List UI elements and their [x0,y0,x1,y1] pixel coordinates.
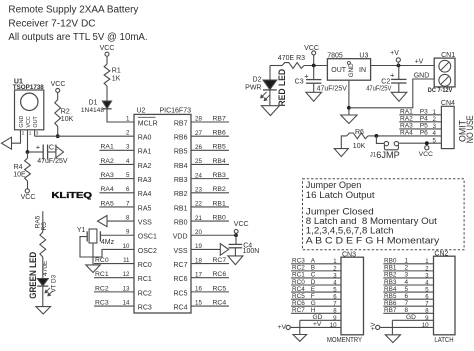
wire D1 to MCLR pin 1 [107,109,134,122]
resistor R2 [55,100,74,127]
CN2 pin 1 net RB0 [383,258,433,266]
CN3 pin 10 +V [290,321,341,329]
net stub RB4 at pin 25 [191,158,229,165]
wire U1 VCC pin [27,130,29,152]
wire U1 OUT pin [34,130,36,136]
svg-text:All outputs are TTL 5V @ 10mA.: All outputs are TTL 5V @ 10mA. [8,32,147,43]
svg-text:20: 20 [195,229,202,236]
svg-text:RED LED: RED LED [277,69,287,107]
svg-text:Y1: Y1 [77,227,86,234]
connector CN2 body [434,256,456,335]
wire C3 to ground [313,83,315,92]
CN1 screw terminal 2 [439,74,451,86]
svg-text:3: 3 [126,144,130,151]
svg-text:GD: GD [313,314,323,321]
svg-text:28: 28 [195,116,202,123]
CN2 pin 8 net RB7 [383,307,433,315]
note line 1 [306,179,362,190]
svg-text:VDD: VDD [173,234,188,241]
CN3 pin 5 net RC4 [291,286,341,294]
title note line 2 [8,18,95,29]
wire R6 right to junction [368,135,376,137]
svg-text:100N: 100N [243,248,260,255]
wire crystal to ground [92,243,94,265]
wire OSC1 pin 9 [100,229,134,236]
wire C4 to ground [234,248,236,256]
ground below D3 [36,307,51,314]
svg-text:RC4: RC4 [213,299,227,306]
VCC symbol above R1 [100,45,115,64]
svg-text:VSS: VSS [173,248,187,255]
logo mark [52,191,93,200]
svg-text:2: 2 [405,265,409,272]
svg-text:+: + [390,71,395,80]
svg-text:2: 2 [433,116,437,123]
svg-text:RB6: RB6 [174,135,188,142]
op IC U2 designator [137,108,192,115]
svg-text:PWR: PWR [245,85,261,92]
svg-text:5: 5 [433,137,437,144]
connector CN3 body [341,257,364,335]
U1 pin number 1 [29,131,32,136]
net stub RB6 at pin 27 [191,130,229,137]
svg-text:1: 1 [405,258,409,265]
CN3 pin 3 net RC1 [291,272,341,280]
svg-text:VCC: VCC [234,221,249,228]
CN3 pin 9 GD [300,314,341,322]
svg-text:RB3: RB3 [213,172,226,179]
svg-text:7: 7 [405,300,409,307]
svg-text:RC5: RC5 [213,285,227,292]
svg-text:RB7: RB7 [384,307,397,314]
D3 designator rotated [50,274,57,283]
junction R2/OUT [56,134,60,138]
svg-text:RA3: RA3 [400,123,413,130]
CN4 pin 5 wire [399,137,441,144]
svg-text:Remote Supply 2XAA Battery: Remote Supply 2XAA Battery [8,5,138,16]
resistor R1 [104,64,121,86]
svg-text:RA4: RA4 [138,191,152,198]
svg-text:RA2: RA2 [101,158,114,165]
crystal Y1 [77,227,115,246]
svg-text:RC7: RC7 [292,307,305,314]
svg-text:15: 15 [195,300,202,307]
U1 pin name VCC [26,116,32,127]
svg-text:2: 2 [126,130,130,137]
C2 value [366,85,391,92]
note line 5 [306,225,394,236]
svg-text:P4: P4 [420,116,428,123]
ground below D2 [261,106,279,116]
svg-text:RB5: RB5 [384,293,397,300]
svg-text:10: 10 [330,322,337,329]
svg-text:6: 6 [126,186,130,193]
svg-text:RA1: RA1 [101,144,114,151]
ground arrow right of C1 [56,146,64,158]
svg-text:4: 4 [405,279,409,286]
wire R5 to D3 [42,257,44,279]
svg-text:VCC: VCC [51,81,66,88]
svg-text:C3: C3 [295,79,304,86]
svg-text:16: 16 [195,286,202,293]
svg-text:+V: +V [390,50,399,57]
wire VSS pin 8 [107,214,134,221]
LATCH label [434,335,453,344]
net stub RA1 at pin 3 [99,144,134,151]
svg-text:P3: P3 [420,109,428,116]
svg-text:RA3: RA3 [101,172,114,179]
DC 7-12V label [428,87,453,94]
wire VSS pin 19 [191,243,220,250]
capacitor C1 47uF [36,142,58,159]
wire U3 IN to CN1 [371,65,435,67]
net stub RB0 at pin 21 [191,214,229,221]
svg-text:GD: GD [406,314,416,321]
svg-text:MOMENTRY: MOMENTRY [327,335,362,344]
CN3 GD wire to ground [299,320,301,334]
svg-text:5: 5 [126,172,130,179]
svg-text:21: 21 [195,215,202,222]
+V net label [415,59,424,66]
VCC terminal at VDD [234,221,249,237]
connector CN1 label [441,52,455,59]
svg-text:+V: +V [277,324,286,331]
svg-text:9: 9 [126,229,130,236]
wire R6 left to ground [341,136,346,149]
LED D2 red [263,80,277,90]
svg-text:3: 3 [405,272,409,279]
LED D3 green [37,279,48,287]
svg-text:A: A [311,258,316,265]
svg-text:RB1: RB1 [213,200,226,207]
svg-text:17: 17 [195,271,202,278]
ground below U3 [341,115,357,124]
ground below C3 [306,92,322,101]
net stub RB5 at pin 26 [191,144,229,151]
svg-text:RC3: RC3 [292,258,305,265]
svg-text:RB2: RB2 [213,186,226,193]
CN2 pin 5 net RB4 [383,286,433,294]
CN2 pin 9 GD [392,314,433,322]
svg-text:GND: GND [348,63,355,78]
net stub RC6 at pin 17 [191,271,229,278]
svg-text:OUT: OUT [33,116,39,128]
RED LED label [277,69,287,107]
diode D1 1N4148 [81,100,112,114]
svg-text:11: 11 [123,257,130,264]
svg-text:RC7: RC7 [173,262,187,269]
net stub RA2 at pin 4 [99,158,134,165]
note line 6 [306,234,440,245]
U1 pin name GND [19,116,25,128]
svg-text:RC2: RC2 [138,290,152,297]
svg-text:RB4: RB4 [213,158,226,165]
net stub RC1 at pin 12 [94,271,134,278]
pin number 1 [126,115,130,122]
net stub RC3 at pin 14 [94,299,134,306]
wire junction to C3 [313,66,315,80]
svg-text:RC1: RC1 [292,272,305,279]
svg-text:RB1: RB1 [384,265,397,272]
svg-text:VCC: VCC [419,151,433,158]
wire R1 to D1 [106,86,108,101]
svg-text:RC3: RC3 [138,304,152,311]
svg-text:RC5: RC5 [173,290,187,297]
svg-text:14: 14 [123,299,130,306]
CN2 GD wire to ground [391,320,393,334]
svg-text:10E: 10E [13,172,26,179]
net stub RA5 at pin 7 [99,200,134,207]
net stub RC0 at pin 11 [94,257,134,264]
svg-text:1N4148: 1N4148 [81,107,104,114]
svg-text:RC7: RC7 [213,257,227,264]
net stub RC2 at pin 13 [94,285,134,292]
svg-text:470E R3: 470E R3 [278,55,305,62]
svg-text:G: G [311,300,316,307]
svg-text:RA0: RA0 [138,135,152,142]
svg-text:RB7: RB7 [213,115,226,122]
net stub RA3 at pin 5 [99,172,134,179]
wire OSC2 pin 10 [80,237,134,257]
svg-text:A B C D E F G H Momentary: A B C D E F G H Momentary [306,234,440,245]
svg-text:RB3: RB3 [384,279,397,286]
connector CN2 label [434,250,448,257]
pin number 2 [126,130,130,137]
svg-text:9: 9 [333,315,337,322]
resistor R4 [13,152,30,181]
U1 pin name OUT [33,116,39,128]
svg-text:9: 9 [425,315,429,322]
ground below CN3 [293,335,307,342]
svg-text:RB0: RB0 [213,214,226,221]
svg-text:RA1: RA1 [138,149,152,156]
svg-text:RA4: RA4 [400,130,413,137]
svg-text:F: F [311,293,315,300]
svg-text:R4: R4 [14,164,23,171]
+V terminal CN2 [370,322,380,331]
svg-text:U2: U2 [137,108,146,115]
net stub RB2 at pin 23 [191,186,229,193]
svg-text:RA4: RA4 [101,186,114,193]
svg-text:RC0: RC0 [95,257,109,264]
net stub RC5 at pin 16 [191,285,229,292]
wire GND rail to CN1 [349,79,434,108]
svg-text:VCC: VCC [304,45,319,52]
svg-text:RB0: RB0 [174,219,188,226]
net label RA5 rotated [34,215,41,228]
net stub RC4 at pin 15 [191,299,229,306]
GND net label [414,72,430,79]
capacitor C4 100N [229,235,260,255]
svg-text:5: 5 [405,286,409,293]
svg-text:6: 6 [405,293,409,300]
svg-text:RB1: RB1 [174,205,188,212]
svg-text:26: 26 [195,144,202,151]
svg-text:1: 1 [29,131,32,136]
svg-text:4Mz: 4Mz [101,239,115,246]
svg-text:RC6: RC6 [173,276,187,283]
IC U2 pin names [138,117,188,311]
svg-text:10: 10 [422,322,429,329]
svg-text:D3: D3 [50,274,57,283]
wire to LED D2 [269,66,271,81]
wire C2 to ground [398,83,400,92]
svg-text:+V: +V [313,321,322,328]
ground arrow at VSS pin 8 [98,215,108,226]
svg-text:4: 4 [126,158,130,165]
CN3 pin 2 net RC2 [291,265,341,273]
svg-text:D2: D2 [253,77,262,84]
svg-text:VSS: VSS [138,219,152,226]
svg-text:VCC: VCC [100,45,115,52]
wire U3 GND down [348,80,350,115]
svg-text:RB2: RB2 [384,272,397,279]
connector CN1 body [434,58,455,87]
svg-text:VT: VT [50,284,57,292]
resistor R3 [282,63,304,69]
D2 emission arrows [260,92,270,101]
CN4 pin 3 net RA3 [399,123,441,130]
CN2 pin 4 net RB3 [383,279,433,287]
capacitor C2 [381,66,406,86]
jumper J1 wire [376,136,384,144]
net stub RB3 at pin 24 [191,172,229,179]
VCC terminal below pin5 [419,146,433,159]
CN4 pin 2 net RA2 [399,116,441,123]
svg-text:8: 8 [405,307,409,314]
svg-text:B: B [311,265,315,272]
svg-text:RA5: RA5 [138,205,152,212]
connector CN4 body [441,106,454,148]
ground below C4 [228,256,243,265]
svg-text:22: 22 [195,201,202,208]
svg-text:3: 3 [36,131,39,136]
junction U3 GND [347,106,351,110]
svg-text:1K: 1K [112,76,121,83]
svg-text:RC6: RC6 [213,271,227,278]
svg-text:GREEN LED: GREEN LED [28,252,39,299]
svg-text:47uF/25V: 47uF/25V [317,85,348,92]
svg-text:RB0: RB0 [384,258,397,265]
svg-text:6JMP: 6JMP [376,150,400,160]
svg-text:MCLR: MCLR [138,120,158,127]
svg-text:19: 19 [195,243,202,250]
connector CN4 label [441,100,455,107]
svg-text:VCC: VCC [26,116,32,127]
svg-text:P5: P5 [420,123,428,130]
junction at U1 VCC / C1 / R4 [26,150,30,154]
IC U2 body [134,114,191,313]
resistor R5 [40,232,46,257]
svg-text:1: 1 [433,109,437,116]
svg-text:RC6: RC6 [292,300,305,307]
jumper note box [303,179,465,250]
note line 2 [306,189,375,200]
svg-text:H: H [311,307,316,314]
note line 4 [306,215,437,226]
regulator U3 labels [327,53,368,60]
VCC symbol above R2 [51,81,66,100]
CN2 pin 7 net RB6 [383,300,433,308]
R3 label [278,55,305,62]
GREEN LED label [28,252,39,299]
junction VCC on pin5 [425,141,429,145]
svg-text:D: D [311,279,316,286]
svg-text:+: + [304,72,309,81]
svg-text:13: 13 [123,285,130,292]
svg-text:RB6: RB6 [213,130,226,137]
net stub RC7 at pin 18 [191,257,229,264]
svg-text:R2: R2 [61,109,70,116]
svg-text:RB6: RB6 [384,300,397,307]
CN3 pin 8 net RC7 [291,307,341,315]
D2 designator [245,77,261,92]
svg-text:+V: +V [415,59,424,66]
capacitor C3 [295,72,322,86]
svg-text:23: 23 [195,186,202,193]
wire RA5 to R5 [42,211,44,232]
svg-text:OSC1: OSC1 [138,234,157,241]
svg-text:RB4: RB4 [384,286,397,293]
MOMENTRY label [327,335,362,344]
title note line 1 [8,5,138,16]
resistor R6 [347,129,368,150]
wire VDD pin 20 [191,229,236,236]
svg-text:2: 2 [22,131,25,136]
title note line 3 [8,32,147,43]
net stub RB7 at pin 28 [191,115,229,122]
svg-text:RB5: RB5 [174,149,188,156]
ground below R6 [334,149,348,157]
ground below CN2 [385,335,400,343]
svg-text:VCC: VCC [21,194,36,201]
svg-text:RC2: RC2 [292,265,305,272]
svg-text:3: 3 [433,123,437,130]
wire D2 to ground [269,90,271,106]
svg-text:10K: 10K [353,143,366,150]
CN2 pin 2 net RB1 [383,265,433,273]
svg-text:RB5: RB5 [213,144,226,151]
jumper J1 pins [384,141,398,149]
connector CN3 label [342,251,356,258]
svg-text:RC4: RC4 [173,304,187,311]
svg-text:1: 1 [126,115,130,122]
IR receiver U1 body [15,90,44,130]
svg-text:OSC2: OSC2 [138,248,157,255]
svg-text:12: 12 [123,271,130,278]
svg-text:RA5: RA5 [101,200,114,207]
ground arrow at U1 GND [2,137,12,149]
svg-text:C1: C1 [49,145,58,152]
wire U1 OUT to RA0 pin 2 [35,135,134,137]
U3 pin names [331,61,366,77]
D3 VT label rotated [50,284,57,292]
wire D3 to ground [42,286,44,307]
svg-text:IN: IN [359,67,366,74]
svg-text:25: 25 [195,158,202,165]
svg-text:RC0: RC0 [292,279,305,286]
CN2 pin 6 net RB5 [383,293,433,301]
svg-text:LATCH: LATCH [434,335,453,344]
svg-text:KLiTEQ: KLiTEQ [52,191,93,200]
U1 pin number 2 [22,131,25,136]
svg-text:RA2: RA2 [138,163,152,170]
svg-text:+V: +V [370,322,377,331]
U1 pin number 3 [36,131,39,136]
svg-text:RB3: RB3 [174,177,188,184]
+V terminal [390,50,400,65]
junction R6 / RA4 / jumper [375,134,379,138]
